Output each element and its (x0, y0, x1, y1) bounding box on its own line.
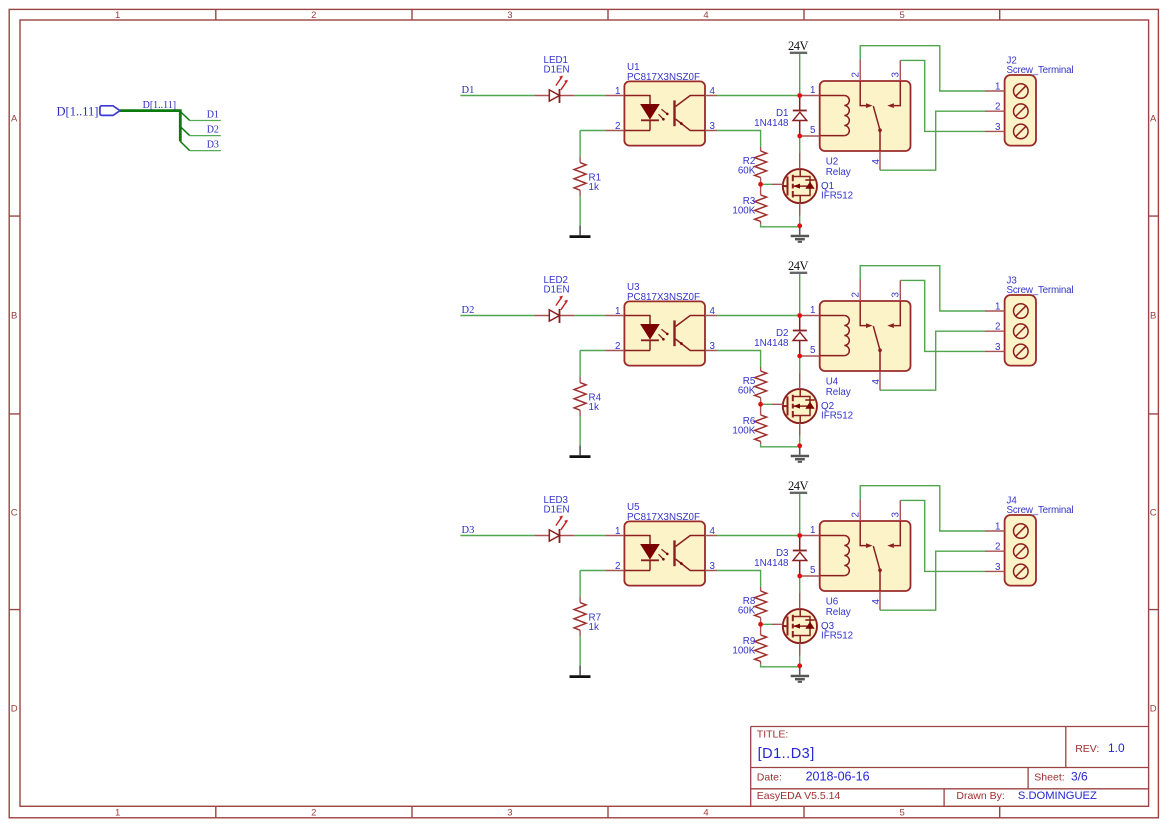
svg-text:R5: R5 (743, 376, 756, 387)
svg-text:[D1..D3]: [D1..D3] (758, 746, 815, 762)
svg-text:D3: D3 (462, 525, 475, 536)
svg-text:3: 3 (507, 808, 512, 819)
svg-text:TITLE:: TITLE: (757, 729, 789, 741)
svg-text:D3: D3 (207, 140, 219, 151)
svg-text:3/6: 3/6 (1071, 770, 1088, 784)
svg-text:R6: R6 (743, 416, 756, 427)
svg-text:U3: U3 (627, 282, 640, 293)
svg-text:Q1: Q1 (821, 181, 834, 192)
svg-text:D1: D1 (462, 85, 475, 96)
svg-text:J4: J4 (1007, 496, 1018, 507)
svg-text:D3: D3 (776, 548, 789, 559)
svg-text:U5: U5 (627, 502, 640, 513)
svg-text:U4: U4 (826, 377, 839, 388)
svg-text:Q2: Q2 (821, 401, 834, 412)
svg-text:J2: J2 (1007, 56, 1017, 67)
svg-text:D: D (11, 704, 18, 715)
svg-text:A: A (1150, 114, 1157, 125)
svg-text:D[1..11]: D[1..11] (143, 100, 177, 111)
svg-text:5: 5 (899, 808, 904, 819)
svg-text:1: 1 (115, 10, 120, 21)
svg-text:U2: U2 (826, 157, 839, 168)
svg-text:C: C (1150, 508, 1157, 519)
svg-text:LED1: LED1 (544, 55, 569, 66)
svg-text:R1: R1 (589, 173, 602, 184)
svg-text:4: 4 (703, 10, 708, 21)
svg-text:1.0: 1.0 (1108, 741, 1125, 755)
svg-text:R3: R3 (743, 196, 756, 207)
svg-text:D[1..11]: D[1..11] (57, 104, 99, 118)
svg-text:2: 2 (311, 808, 316, 819)
svg-text:J3: J3 (1007, 276, 1018, 287)
svg-text:Q3: Q3 (821, 621, 835, 632)
svg-text:3: 3 (507, 10, 512, 21)
svg-text:D1: D1 (207, 110, 219, 121)
svg-text:R7: R7 (589, 613, 602, 624)
svg-text:4: 4 (703, 808, 708, 819)
svg-text:R8: R8 (743, 596, 756, 607)
svg-text:S.DOMINGUEZ: S.DOMINGUEZ (1018, 790, 1097, 802)
svg-text:A: A (11, 114, 18, 125)
svg-text:5: 5 (899, 10, 904, 21)
svg-text:D2: D2 (776, 328, 789, 339)
svg-text:LED3: LED3 (544, 495, 569, 506)
svg-text:B: B (1150, 311, 1156, 322)
svg-text:Drawn By:: Drawn By: (956, 790, 1004, 802)
svg-text:EasyEDA V5.5.14: EasyEDA V5.5.14 (757, 790, 841, 802)
svg-text:R4: R4 (589, 393, 602, 404)
svg-text:D1: D1 (776, 108, 789, 119)
svg-text:B: B (11, 311, 17, 322)
svg-text:2: 2 (311, 10, 316, 21)
svg-text:Sheet:: Sheet: (1034, 772, 1064, 784)
svg-text:D2: D2 (207, 125, 219, 136)
svg-text:LED2: LED2 (544, 275, 569, 286)
svg-text:D: D (1150, 704, 1157, 715)
svg-text:Date:: Date: (757, 772, 782, 784)
svg-text:R2: R2 (743, 156, 756, 167)
svg-text:U1: U1 (627, 62, 640, 73)
svg-text:1: 1 (115, 808, 120, 819)
svg-text:C: C (11, 508, 18, 519)
svg-text:D2: D2 (462, 305, 475, 316)
svg-text:2018-06-16: 2018-06-16 (806, 770, 870, 784)
svg-text:REV:: REV: (1075, 743, 1099, 755)
svg-text:U6: U6 (826, 597, 839, 608)
svg-text:R9: R9 (743, 636, 756, 647)
